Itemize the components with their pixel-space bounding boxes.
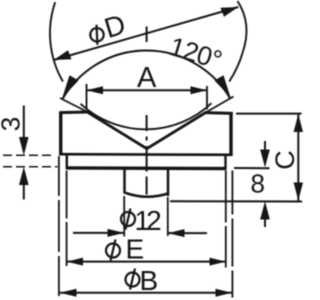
svg-text:C: C — [270, 150, 300, 170]
dimension 3 upper arrow — [23, 106, 25, 153]
ball circle right arc — [229, 1, 246, 82]
dimension C line — [297, 114, 299, 201]
extension dashes 3 upper — [3, 154, 53, 156]
arrowhead C bottom — [294, 183, 303, 201]
dimension line A — [87, 89, 208, 91]
shank bottom rounded end — [125, 193, 169, 197]
svg-text:3: 3 — [0, 117, 25, 131]
head bottom face — [59, 153, 232, 156]
arrowhead C top — [294, 114, 303, 132]
dimension phiB — [60, 292, 232, 294]
cone wall right — [147, 112, 207, 149]
shank left edge — [123, 168, 126, 194]
extension line phiB left — [58, 156, 60, 298]
collar left edge — [66, 154, 68, 168]
label C — [270, 150, 300, 170]
dimension phi12 left — [73, 232, 124, 234]
extension line phi12 right — [167, 197, 169, 236]
arrowhead arc left — [62, 75, 78, 97]
head top face right flat — [206, 111, 233, 115]
dimension 3 lower arrow — [19, 167, 29, 185]
centerline axis — [146, 27, 148, 195]
shank right edge — [167, 168, 170, 196]
arrowhead A left — [87, 86, 104, 94]
svg-text:120°: 120° — [166, 31, 225, 75]
svg-text:12: 12 — [135, 205, 162, 236]
extension line phi12 left — [123, 196, 125, 237]
head right edge — [229, 113, 232, 156]
arrowhead arc right — [215, 75, 231, 97]
label phiB — [126, 265, 159, 296]
svg-text:B: B — [140, 265, 159, 296]
dimension phi12 right — [168, 232, 207, 234]
extension line phiE left — [66, 171, 68, 267]
collar right edge — [224, 155, 226, 169]
head top face left flat — [60, 111, 88, 115]
dimension 8 lower arrow — [260, 201, 270, 219]
extension dashes 3 lower — [3, 166, 58, 168]
extension line 8 top — [234, 167, 270, 169]
cone slant extension right — [207, 97, 234, 113]
ball circle lower arc — [81, 103, 212, 129]
svg-text:E: E — [126, 234, 145, 265]
cone slant extension left — [60, 98, 87, 112]
dimension 8 upper arrow — [264, 141, 266, 152]
arrowhead A right — [191, 86, 208, 94]
120 degree dimension arc — [63, 51, 231, 99]
extension line A right — [206, 86, 208, 110]
collar bottom face — [66, 166, 227, 170]
label phiD — [85, 8, 129, 48]
dimension line phiD — [54, 7, 239, 60]
arrowhead phiD right — [221, 7, 239, 17]
arrowhead phiD left — [54, 50, 72, 60]
extension line A left — [86, 84, 88, 109]
ball circle left arc — [50, 2, 63, 81]
extension line phiB right — [231, 171, 233, 298]
svg-text:8: 8 — [251, 169, 265, 199]
label phi12 — [121, 205, 161, 236]
cone wall left — [87, 112, 147, 149]
extension line shank bottom right — [170, 200, 302, 202]
label 120deg — [166, 31, 225, 75]
svg-text:D: D — [101, 8, 129, 44]
extension line C top — [236, 113, 302, 115]
extension line phiE right — [225, 171, 227, 268]
svg-text:A: A — [137, 62, 157, 94]
label 3 — [0, 117, 25, 131]
dimension phiE — [67, 261, 226, 263]
head left edge — [59, 112, 62, 156]
label phiE — [106, 234, 144, 265]
